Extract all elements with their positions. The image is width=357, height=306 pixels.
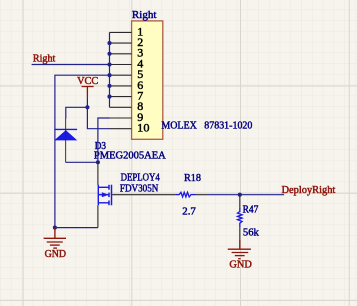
transistor body arrow (102, 192, 109, 197)
svg-text:VCC: VCC (77, 76, 98, 87)
resistor R47 (238, 208, 243, 228)
node junction pin 6 (107, 84, 111, 88)
mosfet gate lead wire to R18 (112, 194, 175, 196)
svg-text:PMEG2005AEA: PMEG2005AEA (94, 150, 166, 161)
svg-text:R47: R47 (243, 205, 259, 216)
pin 4 (110, 64, 132, 66)
svg-text:GND: GND (45, 249, 66, 260)
mosfet drain pin (97, 162, 99, 185)
ground GND left (44, 228, 66, 248)
wire R47 top lead (239, 195, 241, 208)
pin 6 (110, 85, 132, 87)
wire Right net to pin 4 (32, 64, 110, 66)
pin 2 (110, 42, 132, 44)
pin 5 (110, 74, 132, 76)
wire bus vertical pins 1-8 (109, 32, 111, 107)
node junction pin 5 (107, 73, 111, 77)
node junction pin 7 (107, 95, 111, 99)
svg-text:DEPLOY4: DEPLOY4 (121, 173, 160, 184)
node junction diode/drain (96, 160, 100, 164)
pin 10 (110, 128, 132, 130)
node junction pin 4 (107, 62, 111, 66)
svg-text:Right: Right (132, 9, 157, 21)
diode D3 pin through (65, 118, 67, 162)
diode D3 triangle (54, 130, 77, 140)
transistor DEPLOY4 FDV305N (98, 185, 111, 206)
svg-text:GND: GND (229, 260, 252, 271)
connector J1 body MOLEX 87831-1020 (132, 21, 163, 139)
wire R18 right lead (196, 194, 208, 196)
pin 9 (110, 117, 132, 119)
svg-text:56k: 56k (243, 227, 260, 238)
node junction pin 3 (107, 52, 111, 56)
pin 8 (110, 106, 132, 108)
svg-text:R18: R18 (184, 173, 201, 184)
pin 3 (110, 53, 132, 55)
diode D3 cathode bar (54, 128, 77, 130)
svg-text:DeployRight: DeployRight (282, 185, 336, 196)
wire pin 9 down to node (98, 118, 110, 162)
svg-text:Right: Right (33, 53, 56, 64)
wire VCC stub down (86, 97, 88, 107)
svg-text:FDV305N: FDV305N (120, 184, 158, 195)
resistor R18 (175, 192, 196, 197)
svg-text:MOLEX 87831-1020: MOLEX 87831-1020 (161, 121, 252, 132)
pin 7 (110, 96, 132, 98)
wire VCC horizontal to diode (66, 107, 88, 118)
wire diode anode to node (66, 161, 98, 163)
wire R47 bottom lead (239, 227, 241, 240)
pin 1 (110, 31, 132, 33)
node junction VCC (85, 105, 89, 109)
ground GND right (228, 240, 251, 259)
mosfet source pin (97, 205, 99, 227)
wire VCC to pin 10 (87, 107, 109, 128)
wire source to GND node (55, 227, 98, 229)
svg-text:2.7: 2.7 (182, 206, 196, 217)
node junction GND (53, 226, 57, 230)
svg-text:10: 10 (137, 121, 149, 135)
wire pin 5 to GND (55, 75, 110, 227)
wire R18 to DeployRight (208, 194, 285, 196)
node junction R47 top (238, 193, 242, 197)
node junction pin 2 (107, 41, 111, 45)
